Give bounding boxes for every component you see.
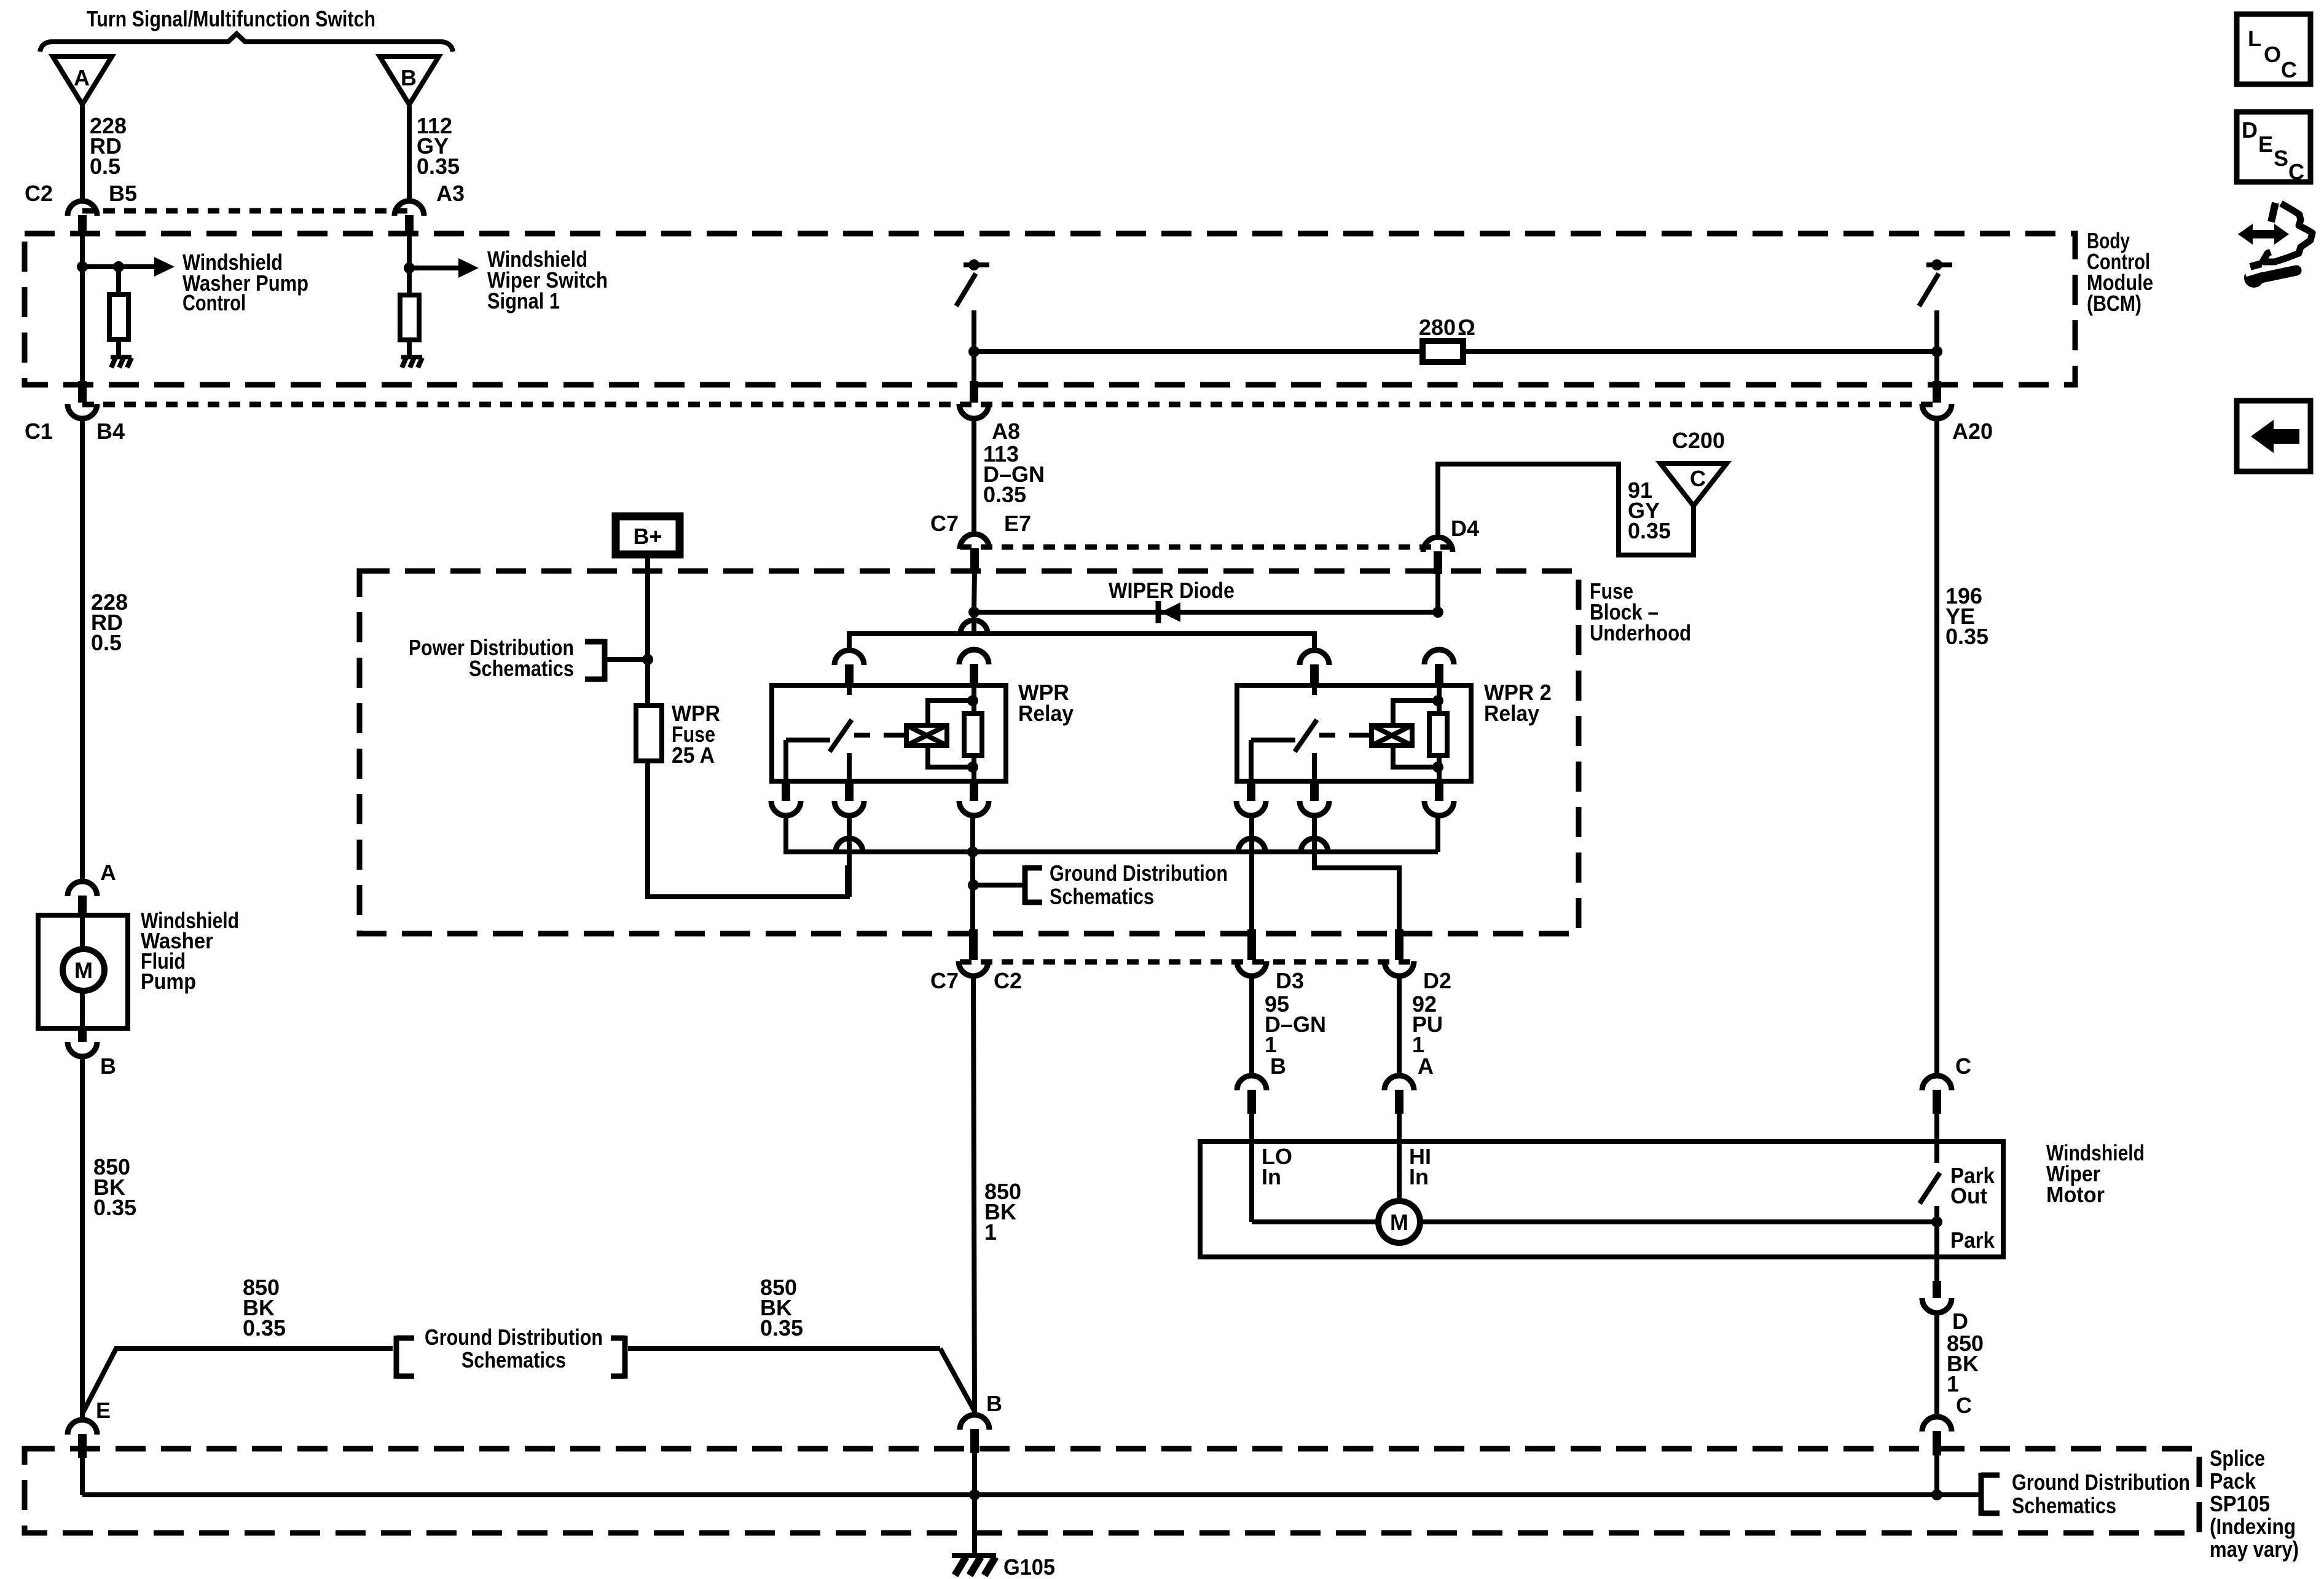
svg-text:Underhood: Underhood: [1590, 620, 1691, 645]
svg-text:B: B: [401, 65, 417, 90]
svg-text:A: A: [74, 65, 90, 90]
svg-text:Schematics: Schematics: [2012, 1493, 2116, 1518]
svg-text:0.5: 0.5: [91, 630, 122, 655]
svg-text:0.35: 0.35: [243, 1315, 286, 1341]
svg-text:A8: A8: [992, 419, 1020, 444]
svg-text:Signal 1: Signal 1: [487, 288, 560, 313]
svg-text:(Indexing: (Indexing: [2210, 1514, 2296, 1539]
svg-text:In: In: [1262, 1164, 1281, 1189]
svg-text:B4: B4: [96, 419, 125, 444]
svg-text:C200: C200: [1672, 428, 1725, 453]
svg-text:Schematics: Schematics: [1050, 884, 1154, 909]
svg-text:0.35: 0.35: [1945, 624, 1988, 649]
svg-text:C1: C1: [25, 419, 53, 444]
svg-text:1: 1: [984, 1219, 997, 1245]
svg-text:C7: C7: [930, 511, 959, 536]
svg-text:WIPER Diode: WIPER Diode: [1109, 578, 1235, 603]
svg-text:S: S: [2274, 146, 2288, 171]
svg-text:Park: Park: [1950, 1227, 1995, 1253]
svg-text:SP105: SP105: [2210, 1491, 2270, 1516]
svg-text:Pump: Pump: [141, 969, 196, 994]
svg-text:Ω: Ω: [1458, 315, 1475, 340]
svg-text:C: C: [2281, 57, 2297, 82]
svg-text:C: C: [1955, 1053, 1971, 1079]
svg-text:B: B: [986, 1391, 1002, 1416]
svg-text:0.5: 0.5: [90, 154, 120, 179]
svg-text:B: B: [100, 1053, 116, 1079]
svg-text:E: E: [96, 1398, 111, 1423]
svg-text:In: In: [1409, 1164, 1429, 1189]
svg-text:Pack: Pack: [2210, 1468, 2256, 1494]
svg-text:Schematics: Schematics: [469, 656, 574, 681]
svg-text:Control: Control: [183, 290, 246, 315]
svg-text:C: C: [1956, 1393, 1972, 1418]
svg-text:0.35: 0.35: [983, 482, 1026, 507]
svg-text:D4: D4: [1451, 516, 1479, 541]
svg-text:B5: B5: [109, 181, 137, 206]
svg-text:Relay: Relay: [1018, 701, 1074, 726]
svg-text:D3: D3: [1276, 968, 1304, 993]
svg-text:Ground Distribution: Ground Distribution: [1050, 860, 1228, 886]
svg-text:(BCM): (BCM): [2087, 291, 2141, 316]
svg-text:M: M: [74, 958, 93, 983]
svg-text:E: E: [2258, 132, 2273, 157]
svg-text:Splice: Splice: [2210, 1446, 2265, 1471]
svg-text:B+: B+: [633, 524, 662, 549]
svg-text:0.35: 0.35: [93, 1195, 136, 1220]
svg-text:Ground Distribution: Ground Distribution: [2012, 1470, 2190, 1495]
svg-text:C7: C7: [930, 968, 959, 993]
svg-text:G105: G105: [1003, 1554, 1055, 1579]
svg-text:E7: E7: [1004, 511, 1031, 536]
svg-text:C: C: [2288, 159, 2304, 184]
svg-text:Ground Distribution: Ground Distribution: [425, 1325, 603, 1350]
svg-text:Motor: Motor: [2046, 1182, 2105, 1207]
svg-text:280: 280: [1419, 315, 1456, 340]
svg-text:may vary): may vary): [2210, 1537, 2299, 1562]
svg-text:L: L: [2248, 26, 2261, 51]
svg-text:A: A: [1418, 1053, 1434, 1079]
svg-text:0.35: 0.35: [1628, 518, 1671, 543]
svg-text:A: A: [100, 860, 116, 885]
svg-text:0.35: 0.35: [417, 154, 460, 179]
svg-text:C: C: [1690, 466, 1706, 491]
svg-text:B: B: [1270, 1053, 1286, 1079]
svg-text:C2: C2: [994, 968, 1022, 993]
svg-text:D2: D2: [1423, 968, 1451, 993]
svg-text:C2: C2: [25, 181, 53, 206]
svg-text:0.35: 0.35: [760, 1315, 803, 1341]
svg-text:Schematics: Schematics: [461, 1347, 566, 1372]
svg-text:A3: A3: [436, 181, 465, 206]
svg-text:A20: A20: [1952, 419, 1993, 444]
svg-text:M: M: [1390, 1210, 1408, 1235]
svg-text:Relay: Relay: [1484, 701, 1539, 726]
svg-text:D: D: [1952, 1309, 1968, 1334]
svg-text:O: O: [2264, 42, 2281, 67]
svg-text:Out: Out: [1950, 1183, 1987, 1208]
svg-text:25 A: 25 A: [672, 742, 715, 768]
svg-text:D: D: [2242, 117, 2258, 143]
svg-text:Turn Signal/Multifunction Swit: Turn Signal/Multifunction Switch: [87, 6, 375, 31]
